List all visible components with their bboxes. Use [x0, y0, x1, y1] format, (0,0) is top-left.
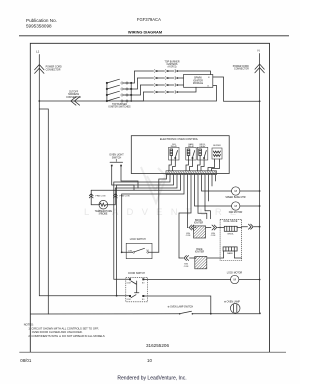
svg-text:POWER CORD: POWER CORD [46, 67, 62, 69]
svg-text:CONNECTOR: CONNECTOR [66, 97, 81, 99]
diagram border [30, 43, 269, 352]
speed bake motor B1 [202, 175, 232, 191]
wire stubs [198, 175, 216, 219]
svg-text:LOCK SWITCH: LOCK SWITCH [130, 239, 146, 241]
spark igniter module U1 [184, 75, 213, 88]
svg-text:COM: COM [127, 282, 132, 284]
switch row 2 [106, 85, 132, 90]
junction L1 top [38, 100, 40, 102]
svg-text:DUAL VALVE: DUAL VALVE [224, 220, 238, 223]
svg-text:SWITCH: SWITCH [112, 156, 122, 159]
svg-text:IGNITER: IGNITER [195, 252, 205, 254]
footer rule [19, 351, 286, 353]
svg-text:DOOR SWITCH: DOOR SWITCH [128, 273, 145, 275]
wires oven light switch [112, 167, 134, 191]
svg-text:316255206: 316255206 [146, 343, 169, 348]
junction bus/right rail [130, 100, 132, 102]
svg-text:10: 10 [147, 358, 152, 363]
wire to lock switch COM [122, 175, 184, 253]
wires relays to connector [169, 160, 220, 171]
svg-text:08/01: 08/01 [20, 358, 32, 363]
temperature probe RT1 [91, 189, 115, 191]
wire to probe left [115, 175, 180, 191]
svg-text:PRB CON: PRB CON [95, 196, 105, 198]
svg-text:CON: CON [211, 235, 216, 237]
fan motor B2 [195, 175, 232, 206]
power cord connector (right) [255, 64, 264, 73]
svg-text:ELECTRONIC OVEN CONTROL: ELECTRONIC OVEN CONTROL [160, 137, 199, 141]
svg-text:WIRING DIAGRAM: WIRING DIAGRAM [128, 30, 162, 35]
svg-text:TEMPERATURE: TEMPERATURE [95, 210, 113, 213]
wire to broil igniter [187, 175, 189, 228]
svg-text:OVEN DOOR CLOSED AND UNLOCKED.: OVEN DOOR CLOSED AND UNLOCKED. [32, 330, 83, 334]
svg-text:CON: CON [186, 235, 191, 237]
EOC connector strip J1 [166, 171, 217, 175]
wire broil igniter to valve [206, 227, 211, 229]
wire L1 drop [38, 55, 40, 102]
cutoff harness connector chevron [71, 97, 80, 105]
wires switch rows to igniter rows [131, 71, 143, 101]
svg-text:Rendered by LeadVenture, Inc.: Rendered by LeadVenture, Inc. [117, 375, 186, 381]
power cord connector (left) [35, 65, 44, 74]
wire to probe right [115, 175, 177, 191]
wire valve to N [242, 226, 248, 228]
svg-text:CONNECTOR: CONNECTOR [234, 69, 249, 71]
svg-text:NOTES:: NOTES: [24, 322, 34, 326]
wire L1 main bus [39, 86, 216, 102]
svg-text:L1: L1 [36, 50, 40, 54]
wire module N out [213, 77, 260, 101]
svg-text:IGNITER SWITCHES: IGNITER SWITCHES [108, 107, 131, 109]
svg-text:Publication No.: Publication No. [26, 18, 57, 23]
dual valve box [220, 219, 242, 260]
svg-text:⊗ OVEN LAMP: ⊗ OVEN LAMP [224, 300, 240, 303]
wire to bake igniter [179, 175, 191, 258]
broil igniter element [188, 227, 197, 229]
junction N bus [259, 100, 261, 102]
oven lamp switch S5 [179, 313, 181, 315]
switch row 3 [106, 91, 132, 96]
svg-text:FAN MOTOR: FAN MOTOR [229, 211, 243, 214]
svg-text:L1: L1 [207, 85, 209, 87]
svg-text:2. COMPONENTS WITH ⊗ DO NOT: 2. COMPONENTS WITH ⊗ DO NOT APPEAR IN AL… [28, 334, 105, 338]
svg-text:COM: COM [127, 299, 132, 301]
svg-text:CONNECTOR: CONNECTOR [46, 69, 61, 71]
top burner igniter switches [107, 83, 131, 101]
svg-text:⊗ OVEN LAMP SWITCH: ⊗ OVEN LAMP SWITCH [168, 306, 194, 309]
switch row 4 [106, 97, 131, 102]
wire L1 branch stub [39, 109, 48, 314]
igniter row 1 [135, 69, 211, 74]
svg-text:HARNESS: HARNESS [68, 93, 80, 96]
svg-text:SPEED BAKE MTR: SPEED BAKE MTR [225, 196, 246, 199]
bake valve coil [223, 247, 242, 258]
svg-text:BAKE: BAKE [196, 248, 203, 251]
wire L1 left drop to door switch [39, 101, 116, 296]
door switch terminals [129, 278, 131, 280]
bake igniter element [179, 257, 196, 259]
switch row 1 [106, 79, 132, 84]
broil valve coil [220, 226, 242, 231]
svg-text:5995358098: 5995358098 [26, 24, 52, 29]
wire door switch lower to bus [143, 296, 211, 314]
svg-text:BAKE: BAKE [227, 252, 233, 255]
svg-text:1. CIRCUIT SHOWN WITH ALL CON: 1. CIRCUIT SHOWN WITH ALL CONTROLS SET T… [28, 326, 99, 330]
bottom bus wire [30, 313, 179, 315]
svg-text:FGF379ACA: FGF379ACA [137, 17, 161, 22]
wire to lock switch NO [159, 175, 167, 253]
svg-text:(4 OR 5): (4 OR 5) [168, 67, 177, 69]
watermark logo [141, 167, 169, 203]
wire to door switch upper [114, 175, 170, 280]
broil igniter connector chevrons [189, 225, 194, 230]
svg-text:BUZZER: BUZZER [213, 145, 221, 147]
bake igniter connector chevron [184, 256, 189, 261]
svg-text:POWER CORD: POWER CORD [233, 66, 249, 68]
svg-text:PROBE: PROBE [99, 214, 108, 216]
door switch actuator [131, 281, 139, 298]
electronic oven control U2 [131, 136, 229, 174]
svg-text:LOCK MOTOR: LOCK MOTOR [227, 273, 243, 275]
igniter row 4 [144, 87, 197, 93]
svg-text:N: N [258, 49, 260, 53]
wire bake igniter to valve [207, 251, 224, 258]
svg-text:BROIL: BROIL [228, 234, 235, 236]
svg-text:COM: COM [128, 250, 133, 252]
wire to door switch lower [117, 175, 174, 296]
svg-text:PRB CON: PRB CON [120, 196, 130, 198]
svg-text:MODULE: MODULE [193, 82, 204, 85]
igniter row 2 [138, 76, 184, 79]
igniter row 3 [141, 83, 184, 86]
svg-text:CON: CON [184, 266, 189, 268]
svg-text:IGNITER: IGNITER [194, 223, 204, 225]
wire N drop (full right vertical) [259, 54, 261, 314]
